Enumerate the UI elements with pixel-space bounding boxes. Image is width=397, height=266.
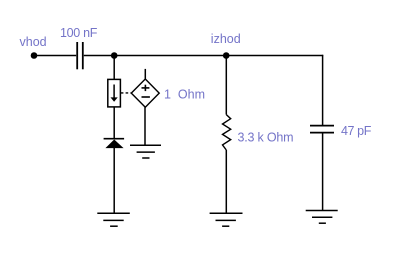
resistor R1 zigzag [223,115,231,150]
svg-text:3.3 k Ohm: 3.3 k Ohm [238,130,294,144]
svg-text:1 Ohm: 1 Ohm [164,88,205,102]
svg-text:vhod: vhod [20,35,47,49]
minus sign inside source [142,96,150,98]
svg-text:100 nF: 100 nF [60,26,98,40]
wire izhod down to resistor R1 [225,56,227,115]
junction node at x=114 [111,52,118,59]
diode D1 cathode bar [104,138,125,140]
wire probe to diode D1 [113,107,115,139]
capacitor C2 plates [310,125,334,127]
stub wire above source [144,69,146,79]
junction node izhod [223,52,230,59]
ground under source [130,144,161,146]
ground under resistor [210,212,243,214]
dashed control link [121,92,131,94]
plus sign inside source [142,87,150,89]
capacitor C1 plates [76,42,78,69]
svg-text:47 pF: 47 pF [341,124,372,138]
wire diode to ground [113,148,115,213]
svg-text:izhod: izhod [211,32,241,46]
wire top rail corner down to capacitor C2 [322,55,324,126]
wire vhod to C1 [34,55,76,57]
wire C2 to ground [322,133,324,211]
node vhod terminal dot [31,52,38,59]
current probe arrow [113,85,115,99]
ground under diode [97,212,130,214]
dependent source U1 diamond (CCVS) [131,79,159,107]
wire resistor to ground [225,150,227,213]
wire C1 to top rail corner [84,55,323,57]
diode D1 triangle [105,140,123,149]
wire source bottom to ground [144,107,146,145]
wire junction down to current probe [113,56,115,80]
current probe box of CCVS (sensing element) [108,79,121,107]
ground under C2 [306,210,338,212]
